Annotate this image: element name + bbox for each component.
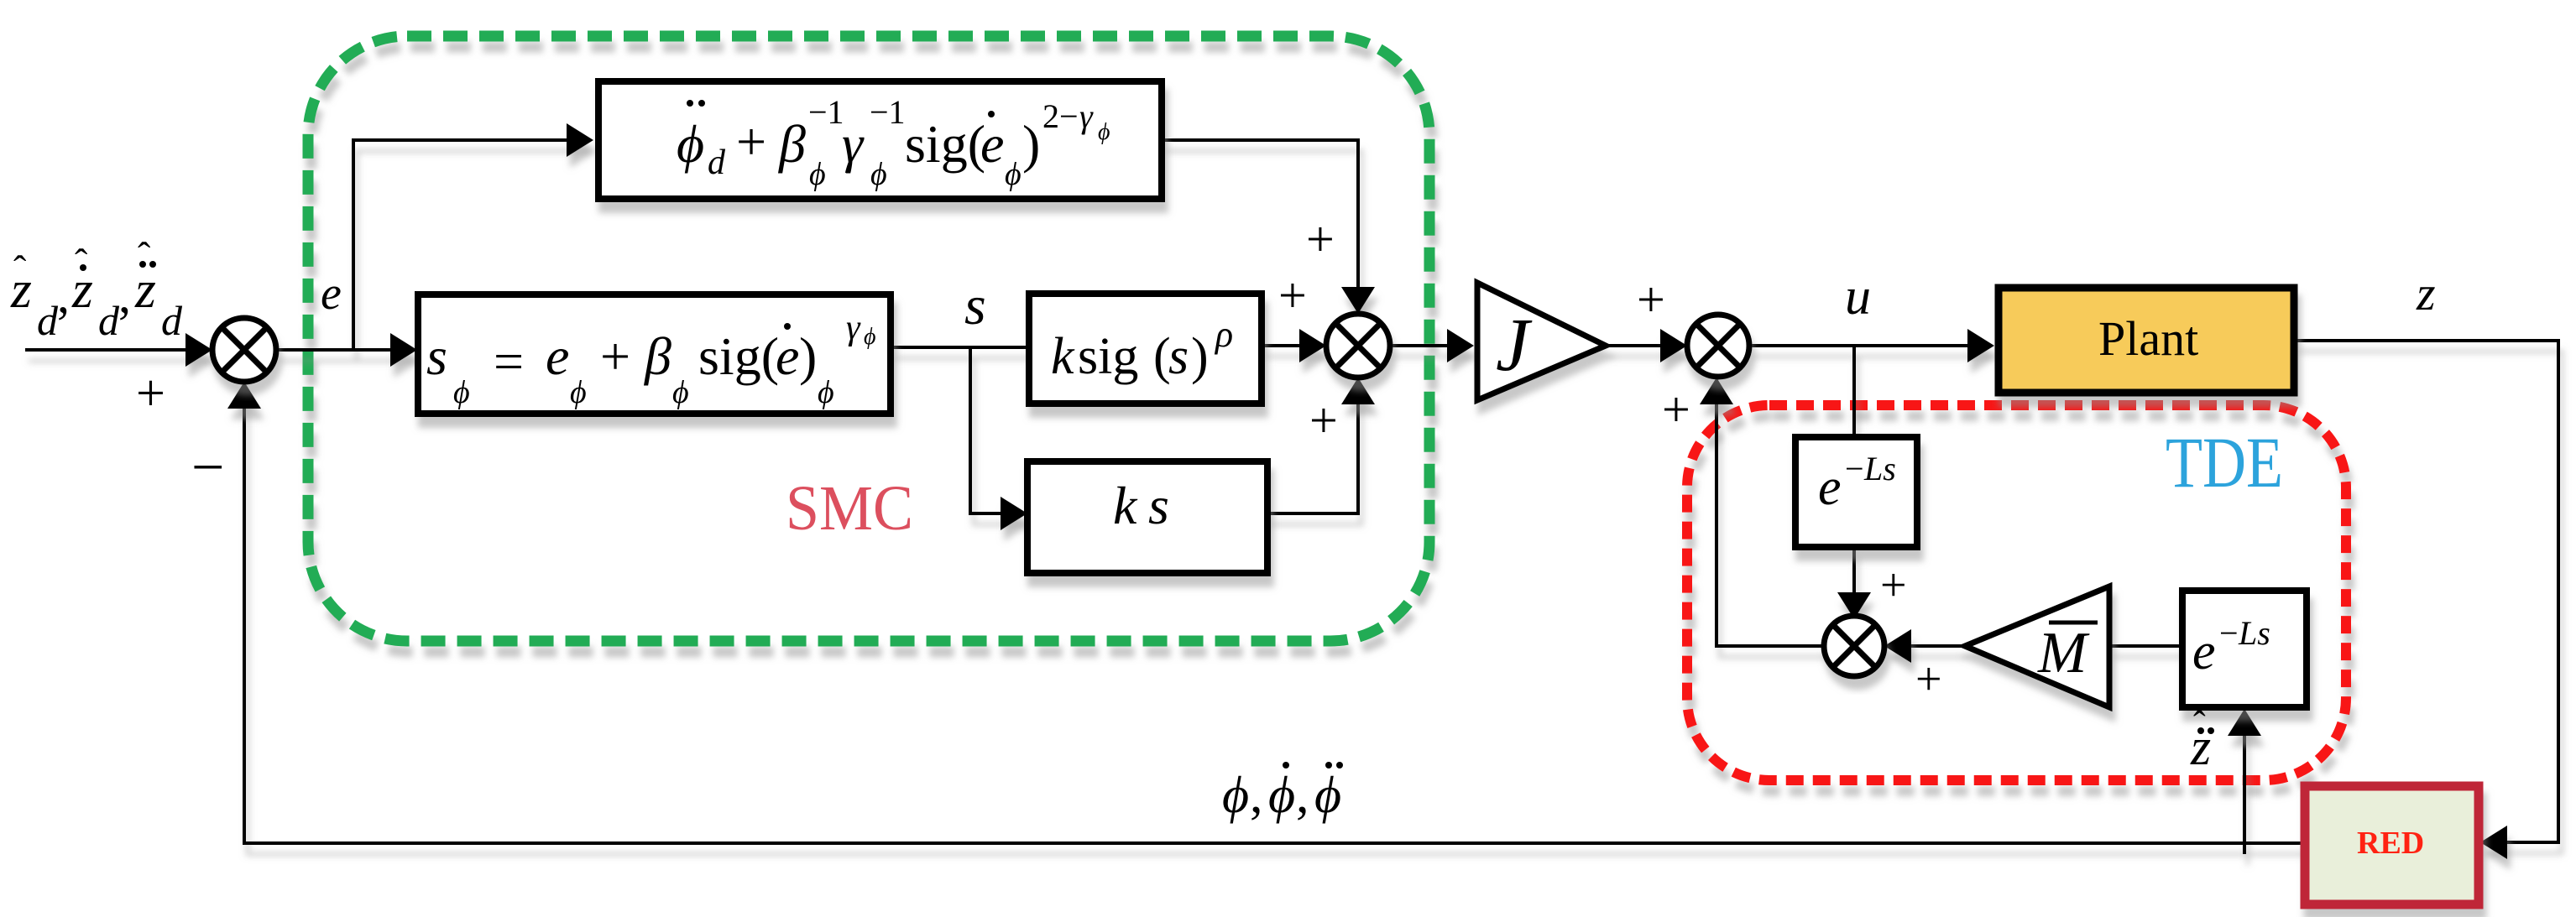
box: feedforward (top): [598, 81, 1162, 199]
svg-text:−: −: [191, 435, 224, 500]
svg-text:Ls: Ls: [1863, 450, 1896, 487]
label: M-bar: [2037, 621, 2098, 685]
svg-text:ϕ: ϕ: [1005, 157, 1022, 192]
wire bottom feedback: [244, 385, 2305, 843]
svg-text:+: +: [1662, 382, 1690, 437]
svg-text:,: ,: [118, 268, 131, 323]
formula: s-phi box: [426, 309, 876, 410]
TDE dashed boundary (red): [1687, 405, 2346, 780]
svg-text:ϕ: ϕ: [672, 375, 689, 410]
formula: top box: [677, 93, 1110, 192]
wire eLs1 down to sum4: [1852, 547, 1856, 618]
svg-text:β: β: [643, 326, 671, 386]
arrow into top box: [567, 123, 593, 157]
svg-text:e: e: [980, 114, 1004, 174]
svg-text:u: u: [1845, 268, 1871, 326]
box: RED: [2305, 786, 2479, 904]
summing junction sum1: [212, 318, 276, 382]
svg-text:e: e: [776, 326, 799, 386]
svg-text:s: s: [964, 275, 986, 336]
svg-text:β: β: [777, 114, 806, 174]
SMC dashed boundary (green): [308, 36, 1429, 641]
box: Plant: [1999, 288, 2294, 393]
wire to top box: [353, 138, 588, 142]
svg-text:SMC: SMC: [786, 473, 913, 544]
arrow into sum2 left: [1299, 329, 1326, 362]
wire s-phi out: [891, 346, 1029, 349]
svg-text:−: −: [1845, 450, 1864, 487]
box: e^-Ls (lower): [2182, 591, 2307, 707]
arrow into J: [1447, 329, 1474, 362]
summing junction sum4 (TDE): [1824, 616, 1884, 676]
svg-text:=: =: [494, 331, 524, 391]
box: sliding surface s-phi: [418, 294, 891, 414]
svg-text:+: +: [600, 326, 630, 386]
wire sum3 to Plant: [1749, 344, 1990, 347]
arrow into sum1 bottom: [227, 382, 261, 409]
svg-text:γ: γ: [842, 114, 865, 174]
svg-text:ˆ: ˆ: [2193, 704, 2206, 745]
svg-text:ϕ: ϕ: [453, 375, 470, 410]
svg-text:−: −: [2219, 614, 2239, 652]
wire sum2 to J: [1390, 344, 1470, 347]
arrow into eLs2 bottom: [2228, 709, 2261, 736]
wire sum1 to s-phi box: [276, 348, 413, 352]
arrow into sum2 bottom: [1341, 378, 1375, 404]
wire u branch down: [1852, 346, 1856, 437]
svg-text:k: k: [1113, 476, 1138, 535]
svg-text:+: +: [1309, 393, 1338, 448]
svg-text:γ: γ: [846, 309, 861, 347]
svg-text:ˆ: ˆ: [75, 241, 87, 284]
svg-text:sig(: sig(: [698, 326, 779, 386]
svg-text:sig: sig: [1078, 328, 1138, 385]
formula: e^-Ls lower box: [2192, 614, 2270, 680]
box: e^-Ls (upper): [1795, 437, 1917, 547]
svg-text:−1: −1: [870, 93, 906, 131]
svg-text:ϕ: ϕ: [864, 324, 876, 350]
label: input z_d hats: [10, 234, 183, 344]
svg-text:e: e: [1818, 459, 1842, 516]
svg-text:sig(: sig(: [905, 114, 985, 174]
svg-text:s: s: [1148, 476, 1169, 535]
svg-text:γ: γ: [1079, 97, 1094, 135]
svg-text:,: ,: [1250, 767, 1263, 824]
arrowheads: [185, 123, 2507, 859]
svg-text:e: e: [321, 268, 342, 320]
svg-text:ϕ: ϕ: [677, 114, 704, 174]
svg-text:ˆ: ˆ: [138, 234, 150, 277]
svg-text:Plant: Plant: [2098, 311, 2198, 366]
svg-text:J: J: [1496, 304, 1533, 387]
svg-text:,: ,: [1296, 767, 1309, 824]
svg-text:): ): [799, 326, 817, 386]
svg-text:ˆ: ˆ: [13, 247, 26, 290]
svg-text:ϕ: ϕ: [1098, 119, 1110, 145]
arrow into sum2 top: [1341, 287, 1375, 314]
wire RED up branch (z-hat-ddot): [2243, 712, 2246, 854]
wire e branch up: [352, 138, 355, 350]
formula: ks box: [1113, 476, 1169, 535]
arrow into sum4 right: [1884, 629, 1911, 663]
svg-text:d: d: [98, 297, 120, 344]
svg-text:RED: RED: [2357, 826, 2424, 861]
svg-text:ϕ: ϕ: [818, 375, 834, 410]
svg-text:Ls: Ls: [2238, 614, 2270, 652]
svg-text:e: e: [546, 326, 569, 386]
svg-text:+: +: [1880, 560, 1907, 612]
summing junction sum2 (SMC): [1326, 314, 1390, 378]
gain M-bar triangle: [1965, 586, 2109, 707]
svg-text:d: d: [708, 143, 726, 182]
gain J triangle: [1477, 283, 1606, 400]
svg-text:s: s: [426, 326, 447, 386]
formula: e^-Ls upper box: [1818, 450, 1896, 516]
svg-text:e: e: [2192, 623, 2216, 680]
svg-text:+: +: [1278, 268, 1307, 323]
svg-text:2−: 2−: [1042, 97, 1079, 135]
svg-text:+: +: [136, 365, 165, 422]
arrow into Plant: [1967, 329, 1994, 362]
svg-text:ϕ: ϕ: [1268, 767, 1295, 824]
wire top box out right: [1162, 140, 1358, 310]
label: z-hat-ddot near RED: [2190, 704, 2214, 776]
svg-text:d: d: [161, 297, 183, 344]
svg-text:s: s: [1168, 328, 1189, 385]
wire J to sum3: [1606, 344, 1684, 347]
arrow into sum4 top: [1837, 592, 1871, 619]
svg-text:ϕ: ϕ: [870, 157, 887, 192]
svg-text:+: +: [736, 112, 766, 171]
wire ksig out to sum2: [1262, 344, 1323, 347]
wire sum4 out left and up to sum3: [1716, 381, 1824, 646]
label: phi phidot phiddot: [1222, 762, 1343, 824]
svg-text:): ): [1191, 328, 1209, 385]
svg-text:+: +: [1637, 272, 1665, 327]
svg-text:ϕ: ϕ: [1222, 767, 1249, 824]
wire ks out to sum2 bottom: [1266, 381, 1358, 513]
arrow into s-phi box: [390, 333, 417, 367]
wire Plant out, right side down, into RED: [2294, 341, 2558, 842]
arrow into sum3 bottom: [1700, 378, 1733, 404]
svg-text:+: +: [1915, 654, 1942, 706]
svg-text:ϕ: ϕ: [809, 157, 826, 192]
formula: ksig box: [1051, 314, 1233, 385]
svg-text:): ): [1022, 114, 1040, 174]
arrow into sum3 left: [1660, 329, 1687, 362]
svg-text:−1: −1: [808, 93, 844, 131]
wire input to sum1: [25, 348, 209, 352]
svg-text:k: k: [1051, 328, 1075, 385]
svg-text:M: M: [2037, 621, 2090, 685]
wire eLs2 to M: [2109, 644, 2182, 648]
summing junction sum3 (pre-plant): [1687, 315, 1749, 377]
box: ks: [1027, 461, 1267, 573]
wire s branch down to ks: [970, 347, 1022, 513]
svg-text:ϕ: ϕ: [570, 375, 587, 410]
wire M to sum4: [1888, 644, 1965, 648]
arrow into ks box: [1001, 497, 1027, 530]
svg-text:,: ,: [57, 268, 70, 323]
svg-text:z: z: [2416, 266, 2436, 320]
svg-text:TDE: TDE: [2166, 422, 2283, 503]
svg-text:+: +: [1306, 211, 1335, 267]
svg-text:ρ: ρ: [1214, 314, 1233, 355]
box: ksig(s)^rho: [1029, 294, 1262, 404]
arrow into RED right: [2480, 826, 2507, 859]
arrow into sum1: [185, 333, 212, 367]
svg-text:d: d: [37, 297, 59, 344]
svg-text:ϕ: ϕ: [1314, 767, 1341, 824]
